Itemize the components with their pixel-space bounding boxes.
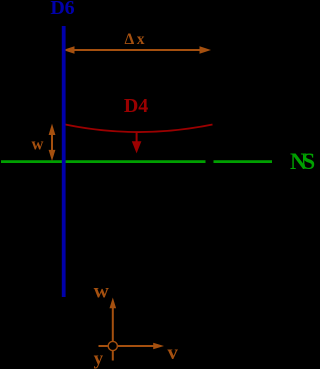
svg-text:v: v [167,340,178,364]
svg-text:D4: D4 [124,95,148,117]
svg-text:w: w [94,279,110,303]
neutral axis NS (green line, two segments) [1,160,272,163]
svg-text:D6: D6 [50,0,74,19]
beam D6 (vertical blue line) [62,26,66,297]
dimension arrow w (double-headed vertical) [49,124,56,161]
svg-text:w: w [32,135,44,154]
svg-text:y: y [94,348,104,369]
dimension arrow Delta x (double-headed horizontal) [63,46,211,54]
svg-text:x: x [137,31,145,48]
svg-text:Δ: Δ [125,31,135,48]
svg-text:NS: NS [290,149,315,174]
w-axis arrow (up) [110,298,117,361]
v-axis arrow (right) [99,343,165,350]
curve D4 (deflected fiber) [64,124,213,132]
coordinate origin (circle, y-axis out of plane) [108,341,117,350]
deflection arrow (red, downward from curve) [132,132,142,153]
